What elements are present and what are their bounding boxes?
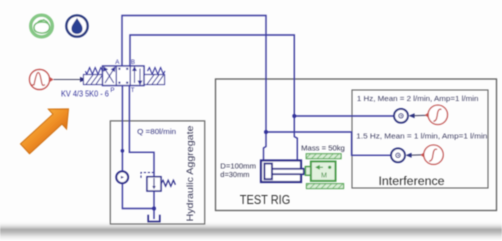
svg-text:B: B	[131, 59, 135, 66]
svg-text:Q =80l/min: Q =80l/min	[137, 127, 176, 136]
svg-text:A: A	[115, 59, 120, 66]
svg-text:Hydraulic Aggregate: Hydraulic Aggregate	[185, 126, 195, 222]
svg-text:1.5 Hz, Mean = 1 l/min, Amp=1: 1.5 Hz, Mean = 1 l/min, Amp=1 l/min	[356, 131, 487, 140]
svg-text:1 Hz, Mean = 2 l/min, Amp=1 l/: 1 Hz, Mean = 2 l/min, Amp=1 l/min	[357, 94, 479, 103]
svg-text:M: M	[321, 171, 327, 180]
svg-text:P: P	[110, 87, 114, 94]
svg-text:Interference: Interference	[378, 174, 444, 188]
svg-text:Mass = 50kg: Mass = 50kg	[301, 143, 345, 152]
svg-text:T: T	[131, 87, 135, 94]
svg-text:D=100mm: D=100mm	[220, 162, 256, 171]
svg-text:d=30mm: d=30mm	[220, 170, 249, 179]
svg-text:TEST RIG: TEST RIG	[240, 192, 290, 207]
svg-text:KV 4/3 5K0 - 6: KV 4/3 5K0 - 6	[61, 89, 109, 99]
